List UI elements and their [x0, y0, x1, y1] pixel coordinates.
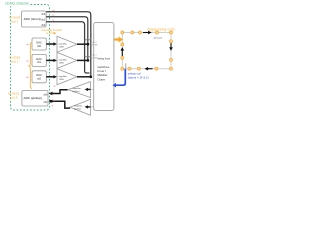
op-amp amplifier 3 [57, 69, 77, 85]
svg-text:ch2: ch2 [41, 24, 46, 27]
ADC (pickup) module [22, 91, 48, 107]
svg-text:slot 1: slot 1 [11, 19, 19, 23]
svg-text:ch0: ch0 [37, 45, 42, 48]
coil markers [121, 31, 173, 70]
svg-text:0. MB: 0. MB [92, 45, 98, 47]
current arrow right [170, 42, 172, 47]
svg-text:ch1: ch1 [37, 61, 42, 64]
svg-text:amplifier: amplifier [73, 87, 82, 90]
op-amp amplifier 2 [57, 52, 77, 68]
svg-text:ch0: ch0 [44, 93, 49, 96]
svg-text:p-: p- [54, 101, 56, 103]
svg-text:DAC: DAC [36, 73, 42, 77]
buffer amp lower (left pointing) [70, 99, 91, 115]
DAC ch1 [32, 54, 46, 66]
wire ch0 monitor [46, 12, 91, 77]
svg-text:slot 2: slot 2 [11, 59, 19, 63]
wire DAC0 to amp1 [46, 43, 53, 45]
shunt tap gray stub [125, 63, 127, 68]
svg-text:DAC: DAC [36, 40, 42, 44]
svg-text:shunt: shunt [154, 36, 162, 40]
wire amp1 output [77, 43, 88, 45]
wire DAC1 to amp2 [46, 59, 53, 61]
wire stub upper [85, 39, 92, 41]
orange drive arrow into loop [114, 38, 119, 40]
svg-text:cDAQ chassis: cDAQ chassis [5, 1, 29, 5]
svg-text:ch2: ch2 [37, 78, 42, 81]
svg-text:1. MB: 1. MB [92, 57, 98, 59]
svg-text:amplifier: amplifier [74, 105, 83, 108]
svg-text:ch0 /: ch0 / [92, 42, 97, 44]
junction dot pickup [49, 100, 52, 103]
svg-text:ch1 /: ch1 / [92, 55, 97, 57]
relay box [94, 23, 114, 111]
svg-text:ch1: ch1 [41, 18, 46, 21]
orange brace [28, 43, 32, 89]
svg-text:ADC (pickup): ADC (pickup) [24, 96, 42, 100]
svg-text:ch1: ch1 [44, 101, 49, 104]
wire relay to buffer1 [90, 88, 93, 90]
svg-text:(buffer): (buffer) [74, 108, 81, 111]
wire ch1 monitor [46, 17, 88, 61]
current arrow left [121, 50, 123, 56]
svg-text:amplifier: amplifier [59, 42, 68, 45]
svg-text:amplifier: amplifier [59, 59, 68, 62]
current arrow top [143, 32, 148, 34]
wire DAC2 to amp3 [46, 76, 53, 78]
current arrow bottom [148, 68, 153, 70]
wire buffer2 to ADC pickup ch1 [52, 101, 70, 108]
DAC ch2 [32, 71, 46, 83]
svg-text:relay box: relay box [98, 57, 111, 61]
svg-text:amplifier: amplifier [59, 75, 68, 78]
svg-text:ch0: ch0 [41, 13, 46, 16]
degaussing coil loop [122, 33, 171, 69]
wire ch2 monitor [46, 22, 89, 73]
wire buffer1 to ADC pickup ch0 [52, 90, 68, 94]
cDAQ chassis dashed enclosure [11, 5, 50, 111]
wire stub mid [85, 56, 92, 58]
DAC ch0 [32, 38, 46, 50]
svg-text:ADC (shunt): ADC (shunt) [24, 17, 41, 21]
wire amp3 output [77, 76, 91, 78]
svg-text:DAC: DAC [36, 57, 42, 61]
svg-text:slot 3: slot 3 [10, 95, 18, 99]
ADC (shunt) module [22, 11, 47, 27]
wire relay to buffer2 [90, 106, 93, 108]
svg-text:(buffer): (buffer) [73, 90, 80, 93]
svg-text:imposing function: imposing function [41, 28, 62, 32]
svg-text:Outer: Outer [97, 77, 105, 81]
svg-text:(layers = 1F & 2): (layers = 1F & 2) [128, 75, 149, 79]
op-amp amplifier 1 [57, 36, 77, 52]
buffer amp upper (left pointing) [68, 82, 91, 98]
pickup coil blue wire [116, 69, 126, 85]
wire amp2 output [77, 59, 88, 61]
